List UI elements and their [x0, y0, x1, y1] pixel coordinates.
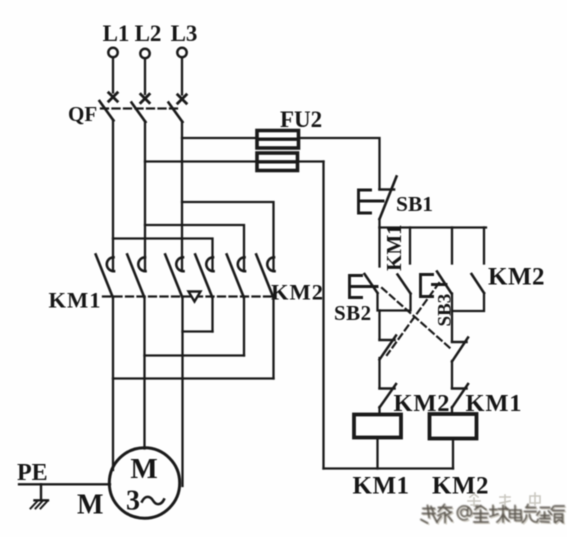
contact SB3 NC in left branch [380, 336, 397, 360]
fuse FU2a [257, 131, 299, 149]
watermark emboss shadow [422, 506, 565, 525]
wire PE to motor [19, 483, 110, 485]
wire to coil KM2 [451, 407, 453, 414]
coil KM1 [354, 415, 401, 438]
contactor KM1 main contact c2 [127, 255, 145, 298]
terminal L3 [177, 48, 186, 57]
wire phase L3 drop [181, 122, 183, 271]
wire right branch middle [451, 361, 453, 388]
contact SB2 NC in right branch [452, 338, 468, 362]
contactor KM1 main contact c3 [165, 255, 183, 298]
svg-text:SB1: SB1 [396, 192, 433, 216]
svg-text:PE: PE [17, 460, 48, 486]
svg-text:SB2: SB2 [334, 301, 372, 325]
contact KM1 aux NC in right branch [452, 384, 468, 408]
svg-text:KM1: KM1 [382, 224, 406, 271]
wire drop KM1 aux [409, 228, 411, 264]
wire crossover c2-c5 [145, 354, 245, 356]
contact KM2 aux NC in left branch [380, 384, 397, 408]
svg-text:KM2: KM2 [432, 473, 489, 500]
wire KM2 aux bottom join [452, 293, 484, 311]
svg-text:3: 3 [126, 486, 140, 517]
pushbutton SB1 stop (NC) [359, 177, 397, 220]
wire SB1 to bus [378, 219, 380, 228]
contactor KM2 main contact c5 [227, 255, 245, 298]
terminal L2 [140, 49, 149, 58]
breaker QF pole 1 [100, 93, 118, 121]
wire motor line A [112, 297, 114, 470]
motor M circle [109, 448, 179, 518]
svg-text:KM1: KM1 [49, 288, 102, 313]
svg-text:L2: L2 [135, 21, 162, 46]
svg-text:QF: QF [68, 102, 97, 126]
wire L2 to KM2 contact c5 [145, 225, 244, 271]
ground symbol [31, 484, 49, 508]
wire phase L1 drop [112, 120, 114, 271]
wire drop SB2 [378, 228, 380, 267]
svg-text:L3: L3 [171, 21, 198, 46]
svg-text:KM2: KM2 [271, 280, 324, 305]
wire coil KM2 to bottom rail [452, 439, 454, 469]
wire L2 terminal drop [144, 59, 146, 94]
wire left control rail [322, 162, 324, 469]
contact KM2 aux NO [472, 274, 485, 293]
watermark light overlay 全球电气资源 [468, 493, 540, 507]
wire drop KM2 aux [483, 228, 485, 264]
wire drop SB3 [451, 228, 453, 264]
contactor KM2 main contact c4 [195, 255, 213, 298]
svg-text:L1: L1 [103, 21, 130, 46]
wire motor line B [143, 297, 145, 449]
wire KM1 aux bottom [378, 293, 411, 311]
wire L1 to KM2 contact c4 [113, 239, 213, 271]
dashed interlock SB3 to left NC [387, 283, 439, 355]
wire phase L2 drop [144, 122, 146, 271]
terminal L1 [108, 48, 117, 57]
fuse FU2b [257, 153, 298, 171]
wire fuse FU2a to SB1 feed [299, 138, 380, 189]
svg-text:KM2: KM2 [488, 264, 545, 291]
wire to coil KM1 [378, 407, 380, 415]
wire c4 down [211, 297, 213, 332]
watermark 头条@全球电气资源 [421, 505, 564, 524]
pushbutton SB2 start (NO) [350, 274, 378, 298]
dashed linkage KM1-KM2 main [103, 295, 275, 297]
wire control bottom rail [324, 467, 454, 469]
svg-text:FU2: FU2 [280, 107, 322, 132]
contact KM1 aux NO [398, 275, 411, 294]
wire L3 to KM2 contact c6 [182, 202, 274, 271]
wire control bus [380, 226, 487, 228]
wire coil KM1 to bottom rail [376, 438, 378, 469]
pushbutton SB3 start (NO) [421, 272, 452, 297]
breaker QF pole 3 [169, 95, 187, 122]
contactor KM1 main contact c1 [96, 255, 114, 298]
wire motor line C [181, 297, 183, 486]
wire c6 down [272, 297, 274, 379]
wire crossover c3-c4 [183, 330, 213, 332]
svg-text:KM1: KM1 [353, 473, 410, 500]
wire L3 to fuse FU2a [182, 137, 257, 139]
contactor KM2 main contact c6 [256, 255, 274, 298]
breaker QF pole 2 [132, 94, 150, 122]
wire right branch upper [451, 311, 453, 341]
wire left branch middle [378, 358, 380, 388]
coil KM2 [430, 414, 477, 439]
wire fuse FU2b to left control rail [298, 160, 324, 162]
wire L2 to fuse FU2b [145, 160, 257, 162]
svg-text:M: M [77, 490, 103, 521]
svg-text:M: M [130, 453, 157, 485]
wire L1 terminal drop [112, 58, 114, 93]
interlock triangle marker [189, 292, 201, 302]
wire crossover c1-c6 [113, 377, 274, 379]
QF linkage dashed [101, 107, 181, 109]
wire L3 terminal drop [181, 58, 183, 95]
dashed interlock SB2 to right NC [382, 288, 450, 348]
wire c5 down [243, 297, 245, 356]
wire left branch upper [378, 311, 380, 339]
tilde of 3~ [142, 497, 164, 504]
